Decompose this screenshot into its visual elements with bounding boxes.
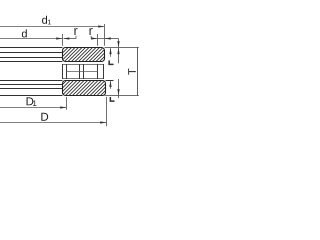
label r (second) [89, 28, 92, 35]
wire: shaft washer bottom face (side view) [0, 61, 63, 63]
leader stub under first r label [75, 36, 77, 39]
cage web center-right [83, 64, 85, 79]
extension line at washer bore [62, 34, 64, 46]
arrowhead T down [117, 89, 119, 95]
cage left edge [62, 64, 64, 79]
label D1: subscript 1 [33, 100, 36, 106]
label d1: subscript 1 [48, 20, 51, 25]
arrowhead r3 left [105, 37, 111, 39]
leader tail of chamfer r2 [91, 38, 97, 40]
extension line at shaft washer OD [104, 24, 106, 46]
cage top edge [63, 64, 104, 66]
arrowhead r2 right [91, 37, 97, 39]
dimension line T lower segment [118, 79, 120, 98]
roller pitch midline [67, 71, 98, 73]
cage right edge [103, 64, 105, 79]
arrowhead top-right r up [109, 48, 111, 54]
dimension line D1 [0, 107, 66, 109]
leader tail of chamfer r at bore [64, 38, 76, 40]
wire: housing washer top face (side view) [0, 80, 63, 82]
wire: shaft washer chamfer edge 2 [0, 57, 63, 59]
wire: housing washer top face extension right [106, 80, 114, 82]
label r top-right (rotated) [108, 60, 113, 65]
label d1: glyph d [42, 16, 47, 24]
wire: housing washer chamfer edge 2 [0, 88, 63, 90]
housing washer section (hatched, bottom) [63, 81, 106, 96]
arrowhead d1 right [98, 25, 104, 27]
arrowhead D1 right [60, 106, 66, 108]
leader elbow of corner r3 (vertical) [118, 39, 120, 48]
wire: bottom face extension line to right [105, 95, 139, 97]
wire: housing washer chamfer edge 1 [0, 84, 63, 86]
arrowhead T up [117, 48, 119, 54]
dimension line T upper segment [118, 48, 120, 63]
cage bottom edge [63, 78, 104, 80]
label r (first) [74, 28, 77, 35]
right border vertical of figure [137, 48, 139, 96]
cage web center-left [79, 64, 81, 79]
leader stub under second r label [90, 36, 92, 39]
label d [22, 29, 27, 37]
dimension line D [0, 122, 106, 124]
label T (rotated) [128, 69, 136, 75]
wire: top face extension line to right [105, 47, 139, 49]
leader tail of corner r3 (horizontal) [105, 38, 119, 40]
dimension line d [0, 38, 62, 40]
dimension line d1 [0, 26, 104, 28]
extension line of chamfer r2 [97, 34, 99, 46]
wire: housing washer bottom face (side view) [0, 95, 63, 97]
arrowhead bottom-right r up [109, 81, 111, 87]
shaft washer section (hatched, top) [63, 48, 105, 62]
leader tail of top-right chamfer r [110, 48, 112, 56]
leader tail of bottom-right chamfer r [110, 81, 112, 89]
label r bottom-right (rotated) [110, 97, 115, 102]
extension line at housing washer OD [106, 97, 108, 127]
cage web left [66, 64, 68, 79]
arrowhead r3 down [117, 41, 119, 47]
arrowhead d right [56, 37, 62, 39]
extension line at housing washer bore [66, 97, 68, 110]
wire: shaft washer top face (side view) [0, 47, 63, 49]
cage web right [97, 64, 99, 79]
label D1: glyph D [27, 97, 34, 105]
arrowhead D right [100, 121, 106, 123]
label D [41, 113, 48, 121]
wire: shaft washer chamfer edge 1 [0, 52, 63, 54]
arrowhead r1 left [63, 37, 69, 39]
connector of r2 dimension [98, 38, 105, 40]
